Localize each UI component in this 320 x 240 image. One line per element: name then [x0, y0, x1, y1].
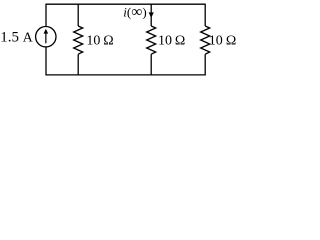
- wire R2 bottom lead: [150, 54, 152, 75]
- svg-text:i(∞): i(∞): [123, 4, 146, 21]
- resistor R3 zigzag: [201, 26, 210, 54]
- wire R1 bottom lead: [77, 54, 79, 75]
- wire current-source bottom lead: [45, 47, 47, 76]
- resistor R2 zigzag: [147, 26, 156, 54]
- wire R2 top lead: [150, 4, 152, 26]
- wire R3 bottom lead: [204, 54, 206, 75]
- current source IS 1.5 A (circle): [36, 27, 56, 47]
- svg-text:Ω: Ω: [175, 34, 185, 49]
- wire bottom bus: [46, 74, 205, 76]
- current source arrow (points up): [44, 29, 49, 44]
- wire top bus: [46, 3, 205, 5]
- svg-text:A: A: [23, 31, 34, 46]
- svg-text:Ω: Ω: [226, 34, 236, 49]
- svg-text:1.5: 1.5: [0, 30, 19, 46]
- resistor R1 zigzag: [74, 26, 83, 54]
- current arrow i(infinity) on R2 lead: [149, 12, 154, 18]
- svg-text:10: 10: [86, 34, 100, 49]
- svg-text:Ω: Ω: [103, 34, 113, 49]
- svg-text:10: 10: [158, 34, 172, 49]
- wire R3 top lead: [204, 4, 206, 26]
- svg-text:10: 10: [209, 34, 223, 49]
- wire R1 top lead: [77, 4, 79, 26]
- wire current-source top lead: [45, 4, 47, 27]
